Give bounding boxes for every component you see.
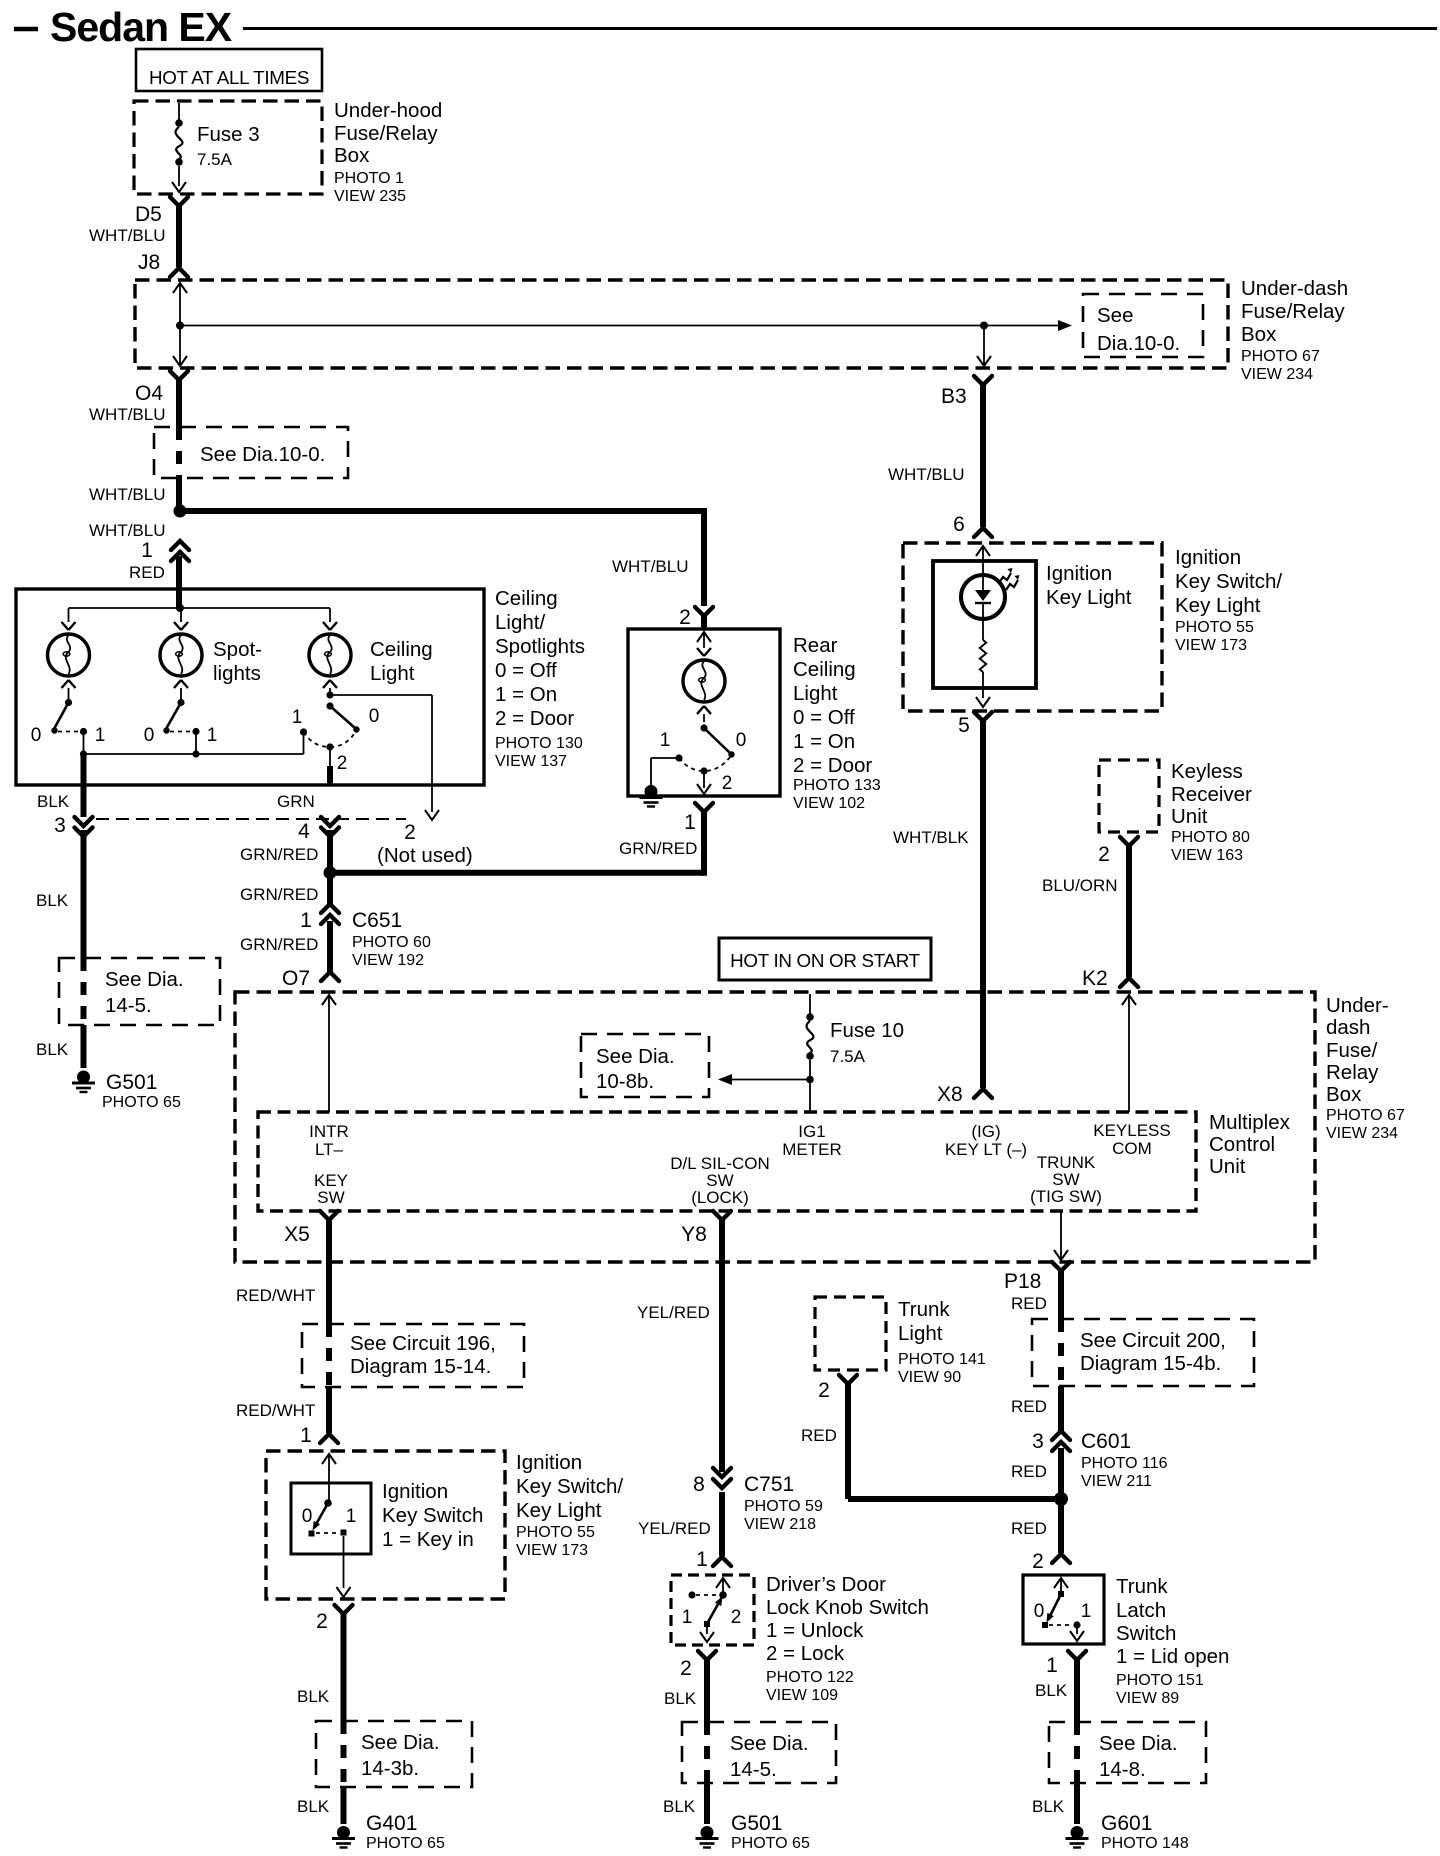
rear ceiling light box bbox=[628, 629, 780, 796]
svg-text:BLK: BLK bbox=[36, 1040, 69, 1059]
rear light arrow out bbox=[697, 770, 711, 794]
ceiling light legend bbox=[495, 587, 585, 770]
ceiling switch contact 1 bbox=[292, 707, 307, 736]
svg-text:PHOTO 59: PHOTO 59 bbox=[744, 1498, 823, 1515]
rear light ground wire bbox=[651, 758, 679, 788]
under-dash box label (bottom) bbox=[1326, 994, 1405, 1142]
svg-text:G401: G401 bbox=[366, 1812, 417, 1835]
svg-text:Ignition: Ignition bbox=[516, 1451, 582, 1474]
svg-text:VIEW 109: VIEW 109 bbox=[766, 1687, 838, 1704]
svg-text:PHOTO 67: PHOTO 67 bbox=[1326, 1107, 1405, 1124]
svg-text:D5: D5 bbox=[135, 203, 162, 226]
svg-text:Light: Light bbox=[898, 1322, 943, 1345]
label box HOT AT ALL TIMES bbox=[136, 49, 322, 91]
svg-text:See Dia.10-0.: See Dia.10-0. bbox=[200, 443, 325, 466]
wire color label BLK trunk bbox=[1035, 1681, 1068, 1700]
svg-text:WHT/BLU: WHT/BLU bbox=[89, 521, 166, 540]
svg-text:2: 2 bbox=[337, 753, 348, 774]
svg-text:Switch: Switch bbox=[1116, 1622, 1176, 1645]
svg-text:Ceiling: Ceiling bbox=[495, 587, 558, 610]
svg-text:Key Switch: Key Switch bbox=[382, 1504, 483, 1527]
svg-text:Key Light: Key Light bbox=[1046, 586, 1132, 609]
svg-text:PHOTO 122: PHOTO 122 bbox=[766, 1669, 854, 1686]
svg-text:Light: Light bbox=[793, 682, 838, 705]
svg-text:Ignition: Ignition bbox=[1046, 562, 1112, 585]
wire GRN/RED rear light bbox=[701, 811, 707, 876]
junction dot J2 bbox=[980, 322, 988, 330]
keyless receiver unit box bbox=[1099, 760, 1159, 832]
wire color label YEL/RED 2 bbox=[638, 1519, 711, 1538]
fuse 10 labels bbox=[830, 1019, 904, 1066]
svg-text:See Dia.: See Dia. bbox=[105, 968, 184, 991]
svg-text:See Dia.: See Dia. bbox=[361, 1731, 440, 1754]
lamp feed left bbox=[68, 608, 70, 622]
svg-text:RED/WHT: RED/WHT bbox=[236, 1286, 315, 1305]
wire RED to trunk latch bbox=[1058, 1499, 1064, 1553]
svg-text:See Circuit 196,: See Circuit 196, bbox=[350, 1332, 496, 1355]
svg-text:Key Light: Key Light bbox=[1175, 594, 1261, 617]
title dash bbox=[14, 27, 38, 32]
rear light switch blade bbox=[704, 728, 735, 758]
svg-text:RED: RED bbox=[129, 563, 165, 582]
svg-text:RED/WHT: RED/WHT bbox=[236, 1401, 315, 1420]
svg-text:RED: RED bbox=[1011, 1294, 1047, 1313]
svg-text:PHOTO 141: PHOTO 141 bbox=[898, 1351, 986, 1368]
svg-text:2: 2 bbox=[680, 1657, 692, 1680]
svg-text:G501: G501 bbox=[731, 1812, 782, 1835]
connector pin O4 bbox=[135, 371, 188, 405]
label Spot-lights bbox=[213, 638, 262, 685]
ground G401 bbox=[332, 1826, 355, 1848]
wire color label RED trunk bbox=[801, 1426, 837, 1445]
wire GRN/RED to C651 bbox=[327, 873, 333, 904]
wire color label BLK trunk 2 bbox=[1032, 1797, 1065, 1816]
svg-text:GRN/RED: GRN/RED bbox=[240, 935, 318, 954]
ign key switch feed bbox=[322, 1454, 336, 1502]
multiplex pin label (IG) KEY LT (-) bbox=[945, 1122, 1027, 1159]
ignition key light inner box bbox=[933, 561, 1036, 688]
label Ceiling Light bbox=[370, 638, 433, 685]
svg-text:2: 2 bbox=[316, 1610, 328, 1633]
under-dash fuse/relay box (bottom) bbox=[235, 992, 1315, 1262]
under-dash fuse/relay box (top) bbox=[135, 280, 1228, 368]
svg-text:1: 1 bbox=[682, 1607, 693, 1628]
trunk light box bbox=[815, 1297, 886, 1370]
connector pin D5 bbox=[135, 197, 188, 226]
wire color label BLU/ORN bbox=[1042, 876, 1118, 895]
ground label G601 bbox=[1101, 1812, 1189, 1852]
svg-text:O4: O4 bbox=[135, 382, 163, 405]
connector 1 (in-line) bbox=[141, 539, 189, 562]
connector terminal 3 bbox=[54, 814, 92, 837]
svg-text:7.5A: 7.5A bbox=[197, 150, 233, 169]
svg-text:0: 0 bbox=[1034, 1601, 1045, 1622]
wire color label BLK bbox=[37, 792, 70, 811]
svg-text:WHT/BLU: WHT/BLU bbox=[888, 465, 965, 484]
LED emission arrows bbox=[999, 568, 1020, 590]
ign key switch output wire bbox=[337, 1536, 351, 1597]
svg-text:KEYLESS: KEYLESS bbox=[1093, 1121, 1171, 1140]
wire RED/WHT dashed bbox=[326, 1324, 332, 1387]
multiplex pin label KEY SW bbox=[314, 1171, 348, 1207]
wire color label WHT/BLU B3 bbox=[888, 465, 965, 484]
wire branch down to B3 bbox=[977, 326, 991, 367]
wire BLK below box bbox=[81, 784, 87, 817]
svg-text:4: 4 bbox=[298, 820, 310, 843]
See Dia. 14-5. box (left) bbox=[59, 958, 220, 1025]
wire BLU/ORN bbox=[1126, 845, 1132, 977]
wire color label GRN/RED 2 bbox=[240, 885, 318, 904]
ignition key switch box (dashed) bbox=[266, 1451, 505, 1599]
svg-text:lights: lights bbox=[213, 662, 261, 685]
ignition key switch inner box bbox=[291, 1483, 371, 1554]
svg-text:See Dia.: See Dia. bbox=[730, 1732, 809, 1755]
wire color label RED p3 bbox=[1011, 1462, 1047, 1481]
wire BLK dashed through box bbox=[81, 958, 87, 1025]
svg-text:2: 2 bbox=[722, 773, 733, 794]
svg-text:YEL/RED: YEL/RED bbox=[638, 1519, 711, 1538]
svg-text:2 = Lock: 2 = Lock bbox=[766, 1642, 845, 1665]
svg-text:Sedan EX: Sedan EX bbox=[50, 4, 232, 50]
svg-text:0 = Off: 0 = Off bbox=[793, 706, 855, 729]
svg-text:PHOTO 1: PHOTO 1 bbox=[334, 170, 404, 187]
svg-text:Under-hood: Under-hood bbox=[334, 99, 442, 122]
svg-text:Diagram 15-4b.: Diagram 15-4b. bbox=[1080, 1352, 1221, 1375]
svg-text:Control: Control bbox=[1209, 1133, 1275, 1156]
svg-text:VIEW 90: VIEW 90 bbox=[898, 1369, 961, 1386]
svg-text:1: 1 bbox=[141, 539, 153, 562]
ground G501 bbox=[72, 1071, 95, 1093]
junction dot GRN/RED bbox=[324, 866, 337, 879]
fuse F10 (Fuse 10 7.5A) bbox=[806, 994, 814, 1112]
svg-text:See Dia.: See Dia. bbox=[1099, 1732, 1178, 1755]
connector C751 bbox=[693, 1468, 823, 1533]
wire out of key light bbox=[976, 688, 990, 707]
svg-text:1 = Unlock: 1 = Unlock bbox=[766, 1619, 864, 1642]
svg-text:Dia.10-0.: Dia.10-0. bbox=[1097, 332, 1180, 355]
connector pin 1 (door lock) bbox=[696, 1548, 731, 1571]
connector C601 bbox=[1032, 1430, 1168, 1490]
svg-text:Key Light: Key Light bbox=[516, 1499, 602, 1522]
ground G501 (bottom) bbox=[696, 1826, 719, 1848]
svg-text:C651: C651 bbox=[352, 909, 402, 932]
svg-text:(TIG SW): (TIG SW) bbox=[1030, 1187, 1102, 1206]
svg-text:C751: C751 bbox=[744, 1473, 794, 1496]
svg-text:GRN: GRN bbox=[277, 792, 315, 811]
svg-text:dash: dash bbox=[1326, 1016, 1370, 1039]
svg-text:Spot-: Spot- bbox=[213, 638, 262, 661]
svg-text:See Circuit 200,: See Circuit 200, bbox=[1080, 1329, 1226, 1352]
svg-text:Spotlights: Spotlights bbox=[495, 635, 585, 658]
svg-text:PHOTO 116: PHOTO 116 bbox=[1081, 1455, 1168, 1472]
See Dia.10-0. box (right) bbox=[1083, 294, 1203, 357]
svg-text:10-8b.: 10-8b. bbox=[596, 1070, 654, 1093]
svg-text:B3: B3 bbox=[941, 385, 967, 408]
rear light switch labels bbox=[660, 730, 747, 794]
svg-text:BLK: BLK bbox=[36, 891, 69, 910]
wire RED trunk light bbox=[848, 1383, 1058, 1499]
svg-text:VIEW 89: VIEW 89 bbox=[1116, 1690, 1179, 1707]
svg-text:PHOTO 60: PHOTO 60 bbox=[352, 934, 431, 951]
svg-text:VIEW 234: VIEW 234 bbox=[1326, 1125, 1398, 1142]
wire YEL/RED lower bbox=[719, 1492, 725, 1556]
svg-text:Under-dash: Under-dash bbox=[1241, 277, 1348, 300]
switch SW2 (mid spotlight) bbox=[144, 688, 218, 746]
wire RED into ceiling light box bbox=[176, 556, 182, 590]
wire O7 to multiplex bbox=[322, 995, 336, 1112]
under-dash box label (top) bbox=[1241, 277, 1348, 383]
svg-text:Under-: Under- bbox=[1326, 994, 1389, 1017]
svg-text:BLK: BLK bbox=[664, 1689, 697, 1708]
svg-text:Lock Knob Switch: Lock Knob Switch bbox=[766, 1596, 929, 1619]
wire RED P18 bbox=[1058, 1270, 1064, 1319]
svg-text:VIEW 173: VIEW 173 bbox=[516, 1542, 588, 1559]
svg-text:VIEW 211: VIEW 211 bbox=[1081, 1473, 1152, 1490]
See Circuit 200 box bbox=[1032, 1319, 1254, 1386]
svg-text:PHOTO 148: PHOTO 148 bbox=[1101, 1835, 1189, 1852]
trunk latch switch SW bbox=[1034, 1591, 1092, 1629]
svg-text:2 = Door: 2 = Door bbox=[495, 707, 574, 730]
See Dia.10-0. box (on wire) bbox=[154, 427, 348, 478]
svg-text:C601: C601 bbox=[1081, 1430, 1131, 1453]
multiplex control unit box bbox=[258, 1112, 1196, 1211]
svg-text:Key Switch/: Key Switch/ bbox=[516, 1475, 623, 1498]
svg-text:1: 1 bbox=[1046, 1654, 1058, 1677]
svg-text:2: 2 bbox=[679, 606, 691, 629]
wire color label WHT/BLU 2 bbox=[89, 405, 166, 424]
wire BLK to G501 bbox=[81, 830, 87, 958]
connector pin 1 (trunk latch) bbox=[1046, 1651, 1086, 1677]
ceiling light/spotlights box bbox=[16, 589, 484, 785]
svg-text:1: 1 bbox=[1081, 1601, 1092, 1622]
wire switch common bus bbox=[84, 733, 304, 754]
wire color label WHT/BLU rear bbox=[612, 557, 689, 576]
svg-text:1 = On: 1 = On bbox=[495, 683, 557, 706]
door lock switch output bbox=[700, 1627, 714, 1642]
svg-text:Ceiling: Ceiling bbox=[793, 658, 856, 681]
svg-text:G601: G601 bbox=[1101, 1812, 1152, 1835]
svg-text:0: 0 bbox=[736, 730, 747, 751]
svg-text:G501: G501 bbox=[106, 1071, 157, 1094]
wire color label BLK door bbox=[664, 1689, 697, 1708]
wire BLK to ground bbox=[81, 1025, 87, 1068]
connector pin J8 bbox=[138, 251, 188, 277]
multiplex pin label KEYLESS COM bbox=[1093, 1121, 1171, 1158]
spotlight lamp 2 bbox=[160, 622, 202, 688]
svg-text:1: 1 bbox=[207, 725, 218, 746]
wire color label WHT/BLU 3 bbox=[89, 485, 166, 504]
rear ceiling lamp bbox=[683, 648, 725, 714]
keyless receiver label bbox=[1171, 760, 1252, 864]
wire color label RED p2 bbox=[1011, 1397, 1047, 1416]
svg-text:1 = On: 1 = On bbox=[793, 730, 855, 753]
svg-text:3: 3 bbox=[1032, 1430, 1044, 1453]
ground label G501 bbox=[102, 1071, 181, 1111]
svg-text:RED: RED bbox=[1011, 1397, 1047, 1416]
svg-text:PHOTO 130: PHOTO 130 bbox=[495, 735, 583, 752]
svg-text:PHOTO 65: PHOTO 65 bbox=[102, 1094, 181, 1111]
title Sedan EX bbox=[50, 4, 232, 50]
connector pin X5 bbox=[284, 1211, 338, 1246]
trunk light label bbox=[898, 1298, 986, 1386]
svg-text:PHOTO 65: PHOTO 65 bbox=[731, 1835, 810, 1852]
svg-text:(IG): (IG) bbox=[971, 1122, 1000, 1141]
svg-text:VIEW 137: VIEW 137 bbox=[495, 753, 567, 770]
svg-text:Box: Box bbox=[334, 144, 370, 167]
connector pin 5 bbox=[958, 712, 992, 737]
svg-text:BLK: BLK bbox=[1035, 1681, 1068, 1700]
trunk latch switch box bbox=[1023, 1575, 1104, 1644]
wire color label RED p1 bbox=[1011, 1294, 1047, 1313]
svg-text:Fuse/Relay: Fuse/Relay bbox=[1241, 300, 1345, 323]
wire color label WHT/BLK bbox=[893, 828, 969, 847]
svg-text:Keyless: Keyless bbox=[1171, 760, 1243, 783]
wire color label BLK ign 2 bbox=[297, 1797, 330, 1816]
wire BLK to G501 bottom bbox=[704, 1783, 710, 1824]
connector dashed line bbox=[96, 818, 406, 820]
wire color label WHT/BLU bbox=[89, 226, 166, 245]
svg-text:GRN/RED: GRN/RED bbox=[240, 885, 318, 904]
svg-text:Fuse 3: Fuse 3 bbox=[197, 123, 260, 146]
wire WHT/BLU O4 bbox=[176, 379, 182, 427]
rear light switch pivot bbox=[700, 714, 707, 732]
wire trunk sw out bbox=[1054, 1211, 1068, 1260]
svg-text:1 = Lid open: 1 = Lid open bbox=[1116, 1645, 1229, 1668]
svg-text:2: 2 bbox=[818, 1379, 830, 1402]
svg-text:BLK: BLK bbox=[663, 1797, 696, 1816]
junction dot fuse10 bbox=[806, 1076, 814, 1084]
svg-text:SW: SW bbox=[317, 1188, 344, 1207]
svg-text:GRN/RED: GRN/RED bbox=[619, 839, 697, 858]
multiplex pin label D/L SIL-CON SW (LOCK) bbox=[670, 1154, 770, 1207]
svg-text:8: 8 bbox=[693, 1473, 705, 1496]
svg-text:P18: P18 bbox=[1004, 1270, 1041, 1293]
svg-text:2: 2 bbox=[404, 821, 416, 844]
svg-text:Trunk: Trunk bbox=[898, 1298, 950, 1321]
rear light switch arc bbox=[675, 754, 731, 774]
svg-text:GRN/RED: GRN/RED bbox=[240, 845, 318, 864]
svg-text:7.5A: 7.5A bbox=[830, 1047, 866, 1066]
svg-text:1: 1 bbox=[660, 730, 671, 751]
svg-text:HOT AT ALL TIMES: HOT AT ALL TIMES bbox=[149, 67, 309, 88]
fuse 3 value label bbox=[197, 123, 260, 169]
See Dia. 14-3b. box bbox=[316, 1721, 472, 1787]
junction dot trunk bbox=[1054, 1492, 1068, 1506]
wire inside box (vertical) bbox=[173, 283, 187, 366]
wire color label BLK 2 bbox=[36, 891, 69, 910]
svg-text:BLK: BLK bbox=[297, 1797, 330, 1816]
wire color label RED/WHT bbox=[236, 1286, 315, 1305]
svg-text:J8: J8 bbox=[138, 251, 160, 274]
driver's door lock knob switch box bbox=[671, 1575, 754, 1645]
svg-text:1: 1 bbox=[346, 1506, 357, 1527]
wire color label RED p4 bbox=[1011, 1519, 1047, 1538]
ignition key switch SW bbox=[302, 1499, 357, 1536]
svg-text:2: 2 bbox=[1098, 843, 1110, 866]
svg-text:Latch: Latch bbox=[1116, 1599, 1166, 1622]
ignition key switch inner label bbox=[382, 1480, 483, 1551]
wire color label RED/WHT 2 bbox=[236, 1401, 315, 1420]
svg-text:WHT/BLU: WHT/BLU bbox=[612, 557, 689, 576]
wire BLK door lock bbox=[704, 1659, 710, 1722]
svg-text:VIEW 218: VIEW 218 bbox=[744, 1516, 816, 1533]
ground label G501 bottom bbox=[731, 1812, 810, 1852]
connector pin 2 (ign key switch) bbox=[316, 1605, 352, 1633]
wire GRN/RED to O7 bbox=[327, 921, 333, 972]
multiplex pin label IG1 METER bbox=[782, 1122, 842, 1159]
svg-text:RED: RED bbox=[1011, 1462, 1047, 1481]
svg-text:PHOTO 67: PHOTO 67 bbox=[1241, 348, 1320, 365]
wire YEL/RED upper bbox=[719, 1219, 725, 1472]
wire RED to junction bbox=[1058, 1448, 1064, 1499]
wire color label GRN/RED t4 bbox=[240, 845, 318, 864]
ceiling switch (3-position) bbox=[304, 688, 380, 774]
svg-text:1 = Key in: 1 = Key in bbox=[382, 1528, 474, 1551]
svg-text:COM: COM bbox=[1112, 1139, 1152, 1158]
ceiling lamp bbox=[309, 622, 351, 688]
svg-text:VIEW 192: VIEW 192 bbox=[352, 952, 424, 969]
LED ignition key light bbox=[961, 575, 1005, 619]
wire color label BLK ign bbox=[297, 1687, 330, 1706]
wire WHT/BLU to junction bbox=[176, 478, 182, 512]
svg-text:BLK: BLK bbox=[297, 1687, 330, 1706]
svg-text:K2: K2 bbox=[1082, 967, 1108, 990]
wire ceiling switch output bbox=[329, 747, 331, 784]
wire WHT/BLK bbox=[980, 720, 986, 1088]
ignition key switch outer label bbox=[516, 1451, 623, 1559]
svg-text:RED: RED bbox=[1011, 1519, 1047, 1538]
connector C651 bbox=[300, 904, 431, 969]
ground label G401 bbox=[366, 1812, 445, 1852]
wire GRN/RED to junction bbox=[327, 830, 333, 873]
wire BLK to G401 bbox=[341, 1787, 347, 1824]
svg-text:Unit: Unit bbox=[1209, 1155, 1246, 1178]
svg-text:Multiplex: Multiplex bbox=[1209, 1111, 1291, 1134]
svg-text:14-3b.: 14-3b. bbox=[361, 1757, 419, 1780]
bus wire inside box bbox=[69, 604, 331, 612]
wire color label RED bbox=[129, 563, 165, 582]
wire BLK trunk latch bbox=[1074, 1659, 1080, 1722]
wire BLK dashed 14-3b bbox=[341, 1721, 347, 1787]
svg-text:Trunk: Trunk bbox=[1116, 1575, 1168, 1598]
svg-text:PHOTO 151: PHOTO 151 bbox=[1116, 1672, 1204, 1689]
svg-text:2: 2 bbox=[731, 1607, 742, 1628]
svg-text:PHOTO 55: PHOTO 55 bbox=[516, 1524, 595, 1541]
door lock switch SW bbox=[682, 1591, 742, 1628]
wire RED/WHT lower bbox=[326, 1387, 332, 1433]
junction dot J1 bbox=[176, 322, 184, 330]
lamp feed mid bbox=[180, 608, 182, 622]
svg-text:Diagram 15-14.: Diagram 15-14. bbox=[350, 1355, 491, 1378]
ignition key light outer label bbox=[1175, 546, 1282, 654]
connector pin X8 bbox=[937, 1083, 992, 1106]
svg-text:BLK: BLK bbox=[37, 792, 70, 811]
ignition key switch/key light box (dashed) bbox=[903, 543, 1162, 711]
svg-text:PHOTO 133: PHOTO 133 bbox=[793, 777, 881, 794]
svg-text:WHT/BLK: WHT/BLK bbox=[893, 828, 969, 847]
svg-text:0: 0 bbox=[144, 725, 155, 746]
door lock switch feed bbox=[716, 1578, 730, 1595]
svg-text:Unit: Unit bbox=[1171, 805, 1208, 828]
trunk latch switch label bbox=[1116, 1575, 1229, 1707]
wire sw1 to bus BLK bbox=[80, 732, 87, 758]
See Dia. 14-5. box (bottom) bbox=[682, 1722, 836, 1783]
under-hood box label bbox=[334, 99, 442, 205]
svg-text:VIEW 173: VIEW 173 bbox=[1175, 637, 1247, 654]
svg-text:0: 0 bbox=[302, 1506, 313, 1527]
connector pin Y8 bbox=[681, 1211, 731, 1246]
wire WHT/BLU B3 bbox=[980, 384, 986, 527]
